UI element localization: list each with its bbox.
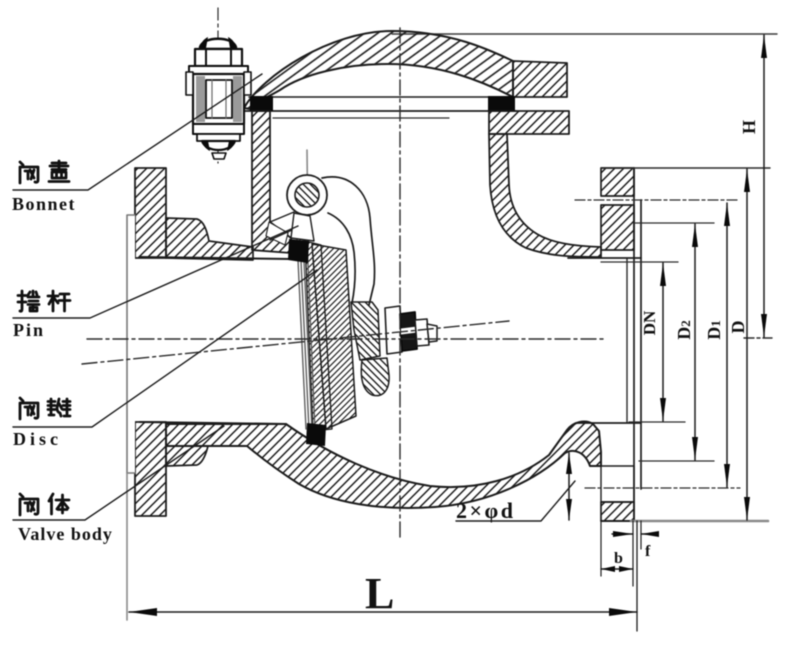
disc body (hatched): [305, 241, 332, 431]
D1 dimension line: [724, 203, 730, 487]
disc stem washer: [385, 306, 402, 354]
bonnet dome (hatched band): [244, 31, 513, 109]
leader line Disc: [13, 270, 317, 427]
gasket right (black): [488, 96, 515, 111]
rocker arm inner curve: [328, 213, 355, 303]
outlet flange top ring lower piece: [601, 205, 634, 250]
body flange right ear: [489, 111, 569, 134]
D2 dimension line: [692, 224, 698, 460]
bolt hole axis top (D1): [575, 199, 740, 201]
label 阀盖 (drawn glyphs): [20, 161, 69, 183]
svg-text:H: H: [739, 120, 759, 134]
b extension line left: [600, 521, 602, 576]
disc stem tip: [427, 324, 437, 342]
small vertical dimension near outlet: [566, 453, 572, 520]
leader line Pin: [13, 226, 298, 318]
b dimension arrows: [601, 566, 633, 572]
hinge pin inner circle hatched: [295, 183, 319, 207]
outlet flange bottom bolt hole box: [601, 466, 634, 502]
outlet bore top line: [568, 257, 641, 259]
eyebolt slot window: [206, 80, 232, 118]
L extension line left: [126, 473, 128, 620]
seat ring (hatched): [312, 244, 356, 429]
left flange plate bottom part: [135, 422, 166, 516]
eyebolt lower band: [193, 124, 244, 134]
bonnet flange right ear: [513, 61, 567, 97]
disc face lines: [297, 239, 306, 429]
inlet neck top band: [166, 218, 253, 260]
f extension line right: [640, 521, 642, 549]
left body wall below bonnet: [252, 111, 291, 253]
extension line DN top: [601, 261, 678, 263]
bracket white channel: [266, 222, 288, 245]
body right wall J-curve: [489, 134, 601, 257]
outlet flange bottom ring piece: [601, 502, 634, 521]
tilted seat axis centerline: [82, 321, 509, 364]
outlet flange raised face outer line: [640, 200, 642, 489]
D dimension line: [744, 169, 750, 520]
svg-text:D: D: [728, 321, 748, 334]
H top extension line: [392, 33, 777, 35]
L dimension line: [129, 608, 637, 616]
disc stem washer 2: [415, 319, 429, 346]
DN dimension line: [660, 263, 666, 421]
f extension lines: [632, 521, 634, 586]
svg-text:L: L: [365, 569, 394, 618]
bolt hole axis bottom (D1): [585, 487, 740, 489]
outlet flange face plate: [633, 168, 635, 521]
label 阀瓣 (drawn glyphs): [20, 398, 70, 419]
eyebolt hex nut: [195, 49, 242, 66]
svg-text:D2: D2: [674, 320, 694, 340]
seal black blob top: [288, 239, 309, 263]
centerline extension for H bottom: [744, 337, 772, 339]
vertical centerline: [399, 28, 401, 537]
eyebolt clamp ears: [186, 72, 193, 95]
extension line D2 top: [634, 222, 714, 224]
hinge pin outer circle: [287, 175, 327, 215]
eyebolt centerline: [217, 8, 219, 163]
eyebolt body: [193, 74, 244, 124]
eyebolt washer: [189, 66, 248, 74]
outlet flange top edge / D extension: [601, 167, 770, 169]
bonnet inner ledge line: [273, 117, 449, 119]
svg-text:DN: DN: [640, 310, 659, 335]
outlet bore inner lip line: [626, 259, 628, 422]
main horizontal centerline: [87, 338, 607, 340]
extension line D2 bottom: [639, 460, 714, 462]
svg-text:2×φd: 2×φd: [456, 498, 516, 523]
f dimension arrows: [612, 531, 659, 537]
gasket left (black): [250, 96, 273, 111]
svg-text:b: b: [614, 550, 623, 567]
svg-text:Pin: Pin: [13, 320, 45, 340]
arm boss (hatched): [351, 302, 380, 360]
extension line DN bottom: [629, 421, 685, 423]
leader line Bonnet: [13, 74, 262, 190]
bonnet joint line upper: [249, 96, 513, 98]
extension line D bottom (gray): [631, 520, 768, 523]
outlet flange top ring upper piece: [601, 168, 634, 196]
pin boss bracket lines: [270, 212, 294, 222]
inlet bore top line: [140, 257, 291, 259]
svg-text:D1: D1: [704, 320, 724, 340]
disc stem nut (dark): [400, 312, 417, 351]
H dimension line: [761, 35, 767, 337]
inlet bore bottom line: [140, 422, 286, 424]
svg-text:Disc: Disc: [13, 429, 62, 449]
pin boss centerline (gray): [307, 150, 308, 240]
label 阀体 (drawn glyphs): [20, 494, 69, 515]
left flange plate top part: [135, 168, 166, 258]
eyebolt bottom dome: [202, 141, 235, 150]
arm lower lobe: [361, 358, 389, 396]
left flange bottom hub step: [166, 446, 208, 466]
seal black blob bottom: [306, 423, 326, 446]
outlet flange bottom edge: [601, 520, 634, 522]
bonnet joint line lower: [245, 110, 516, 112]
left flange raised face: [127, 215, 135, 473]
arm root boss below pin circle: [291, 213, 314, 241]
svg-text:Bonnet: Bonnet: [12, 194, 76, 214]
L extension line right: [636, 521, 638, 631]
svg-text:f: f: [645, 543, 651, 560]
leader line Valve body: [13, 426, 224, 520]
svg-text:Valve body: Valve body: [18, 524, 113, 544]
body bottom band: [166, 422, 601, 508]
label 摇杆 (drawn glyphs): [18, 291, 70, 311]
eyebolt top cap dome: [200, 39, 236, 49]
outlet bore bottom line: [576, 422, 641, 424]
rocker arm outer curve: [322, 177, 375, 305]
